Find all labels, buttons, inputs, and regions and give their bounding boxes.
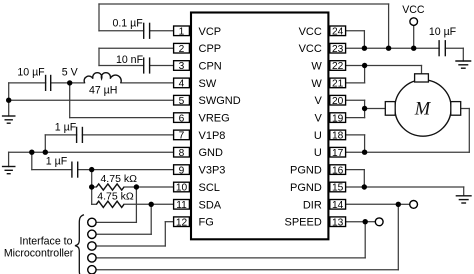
svg-text:PGND: PGND <box>290 182 322 194</box>
svg-text:17: 17 <box>332 148 344 159</box>
svg-text:SWGND: SWGND <box>199 95 241 107</box>
svg-text:15: 15 <box>332 183 344 194</box>
svg-text:10: 10 <box>176 183 188 194</box>
svg-text:0.1 µF: 0.1 µF <box>112 18 143 30</box>
svg-text:VCC: VCC <box>402 4 425 16</box>
svg-text:7: 7 <box>179 131 185 142</box>
svg-text:21: 21 <box>332 79 344 90</box>
svg-text:5 V: 5 V <box>62 66 79 78</box>
svg-text:19: 19 <box>332 113 344 124</box>
svg-text:GND: GND <box>199 147 224 159</box>
svg-text:4: 4 <box>179 79 185 90</box>
svg-text:W: W <box>311 61 322 73</box>
svg-text:W: W <box>311 78 322 90</box>
svg-text:10 µF: 10 µF <box>429 26 457 38</box>
svg-text:VCP: VCP <box>199 26 222 38</box>
svg-text:SDA: SDA <box>199 199 222 211</box>
svg-text:8: 8 <box>179 148 185 159</box>
svg-text:1: 1 <box>179 27 185 38</box>
svg-text:U: U <box>314 147 322 159</box>
svg-text:24: 24 <box>332 27 344 38</box>
svg-text:M: M <box>414 100 432 120</box>
svg-text:12: 12 <box>176 217 188 228</box>
svg-text:VCC: VCC <box>299 26 322 38</box>
svg-text:5: 5 <box>179 96 185 107</box>
svg-text:14: 14 <box>332 200 344 211</box>
svg-text:CPN: CPN <box>199 61 222 73</box>
svg-text:FG: FG <box>199 217 214 229</box>
svg-text:13: 13 <box>332 217 344 228</box>
svg-text:20: 20 <box>332 96 344 107</box>
svg-text:2: 2 <box>179 44 185 55</box>
svg-text:SW: SW <box>199 78 217 90</box>
svg-text:SCL: SCL <box>199 182 220 194</box>
svg-text:CPP: CPP <box>199 43 222 55</box>
svg-text:1 µF: 1 µF <box>46 156 68 168</box>
svg-text:U: U <box>314 130 322 142</box>
svg-text:11: 11 <box>176 200 187 211</box>
svg-text:V1P8: V1P8 <box>199 130 226 142</box>
svg-text:4.75 kΩ: 4.75 kΩ <box>97 191 134 203</box>
svg-text:3: 3 <box>179 61 185 72</box>
svg-text:Microcontroller: Microcontroller <box>4 247 74 259</box>
svg-text:1 µF: 1 µF <box>55 122 77 134</box>
svg-text:VCC: VCC <box>299 43 322 55</box>
svg-text:VREG: VREG <box>199 113 230 125</box>
svg-text:18: 18 <box>332 131 344 142</box>
svg-text:10 nF: 10 nF <box>116 54 144 66</box>
svg-text:SPEED: SPEED <box>285 217 322 229</box>
svg-text:47 µH: 47 µH <box>89 84 117 96</box>
svg-text:V: V <box>314 113 322 125</box>
svg-text:22: 22 <box>332 61 344 72</box>
svg-text:16: 16 <box>332 165 344 176</box>
svg-text:9: 9 <box>179 165 185 176</box>
svg-text:10 µF: 10 µF <box>17 66 45 78</box>
svg-text:6: 6 <box>179 113 185 124</box>
svg-text:V: V <box>314 95 322 107</box>
svg-text:DIR: DIR <box>303 199 322 211</box>
svg-text:PGND: PGND <box>290 165 322 177</box>
svg-text:V3P3: V3P3 <box>199 165 226 177</box>
svg-text:23: 23 <box>332 44 344 55</box>
svg-text:Interface to: Interface to <box>20 235 73 247</box>
svg-text:4.75 kΩ: 4.75 kΩ <box>100 173 137 185</box>
